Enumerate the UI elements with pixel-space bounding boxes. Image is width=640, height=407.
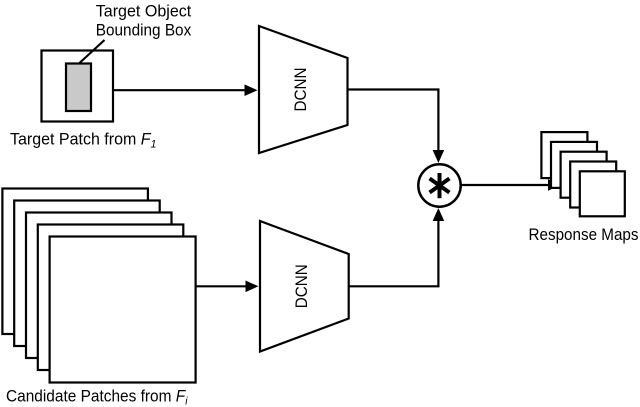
arrow: candidate patches to bottom DCNN [196,281,259,293]
correlation operator circle [418,164,460,206]
target patch frame [42,51,114,122]
svg-text:Bounding Box: Bounding Box [96,22,192,40]
target object bounding box (gray) [66,64,91,112]
svg-text:DCNN: DCNN [291,68,310,112]
svg-text:Candidate Patches from Fi: Candidate Patches from Fi [6,388,188,407]
leader line from label to bounding box [80,40,105,63]
trapezoid: bottom DCNN [260,221,349,352]
wire: top DCNN to correlation op (elbow) [348,90,445,164]
svg-text:Response Maps: Response Maps [529,226,639,244]
svg-text:Target Patch from F1: Target Patch from F1 [10,131,157,151]
asterisk inside correlation operator [430,173,450,198]
response maps stack (5 squares) [541,132,624,216]
svg-text:DCNN: DCNN [292,264,311,308]
wire: bottom DCNN to correlation op (elbow) [349,208,445,286]
arrow: correlation op to response maps [461,179,561,191]
label: Target Object Bounding Box [96,3,192,40]
svg-text:Target Object: Target Object [96,3,192,21]
op-amp style trapezoid: top DCNN [259,26,348,153]
arrow: target patch to top DCNN [114,84,258,96]
candidate patches stack (5 squares) [2,189,195,383]
